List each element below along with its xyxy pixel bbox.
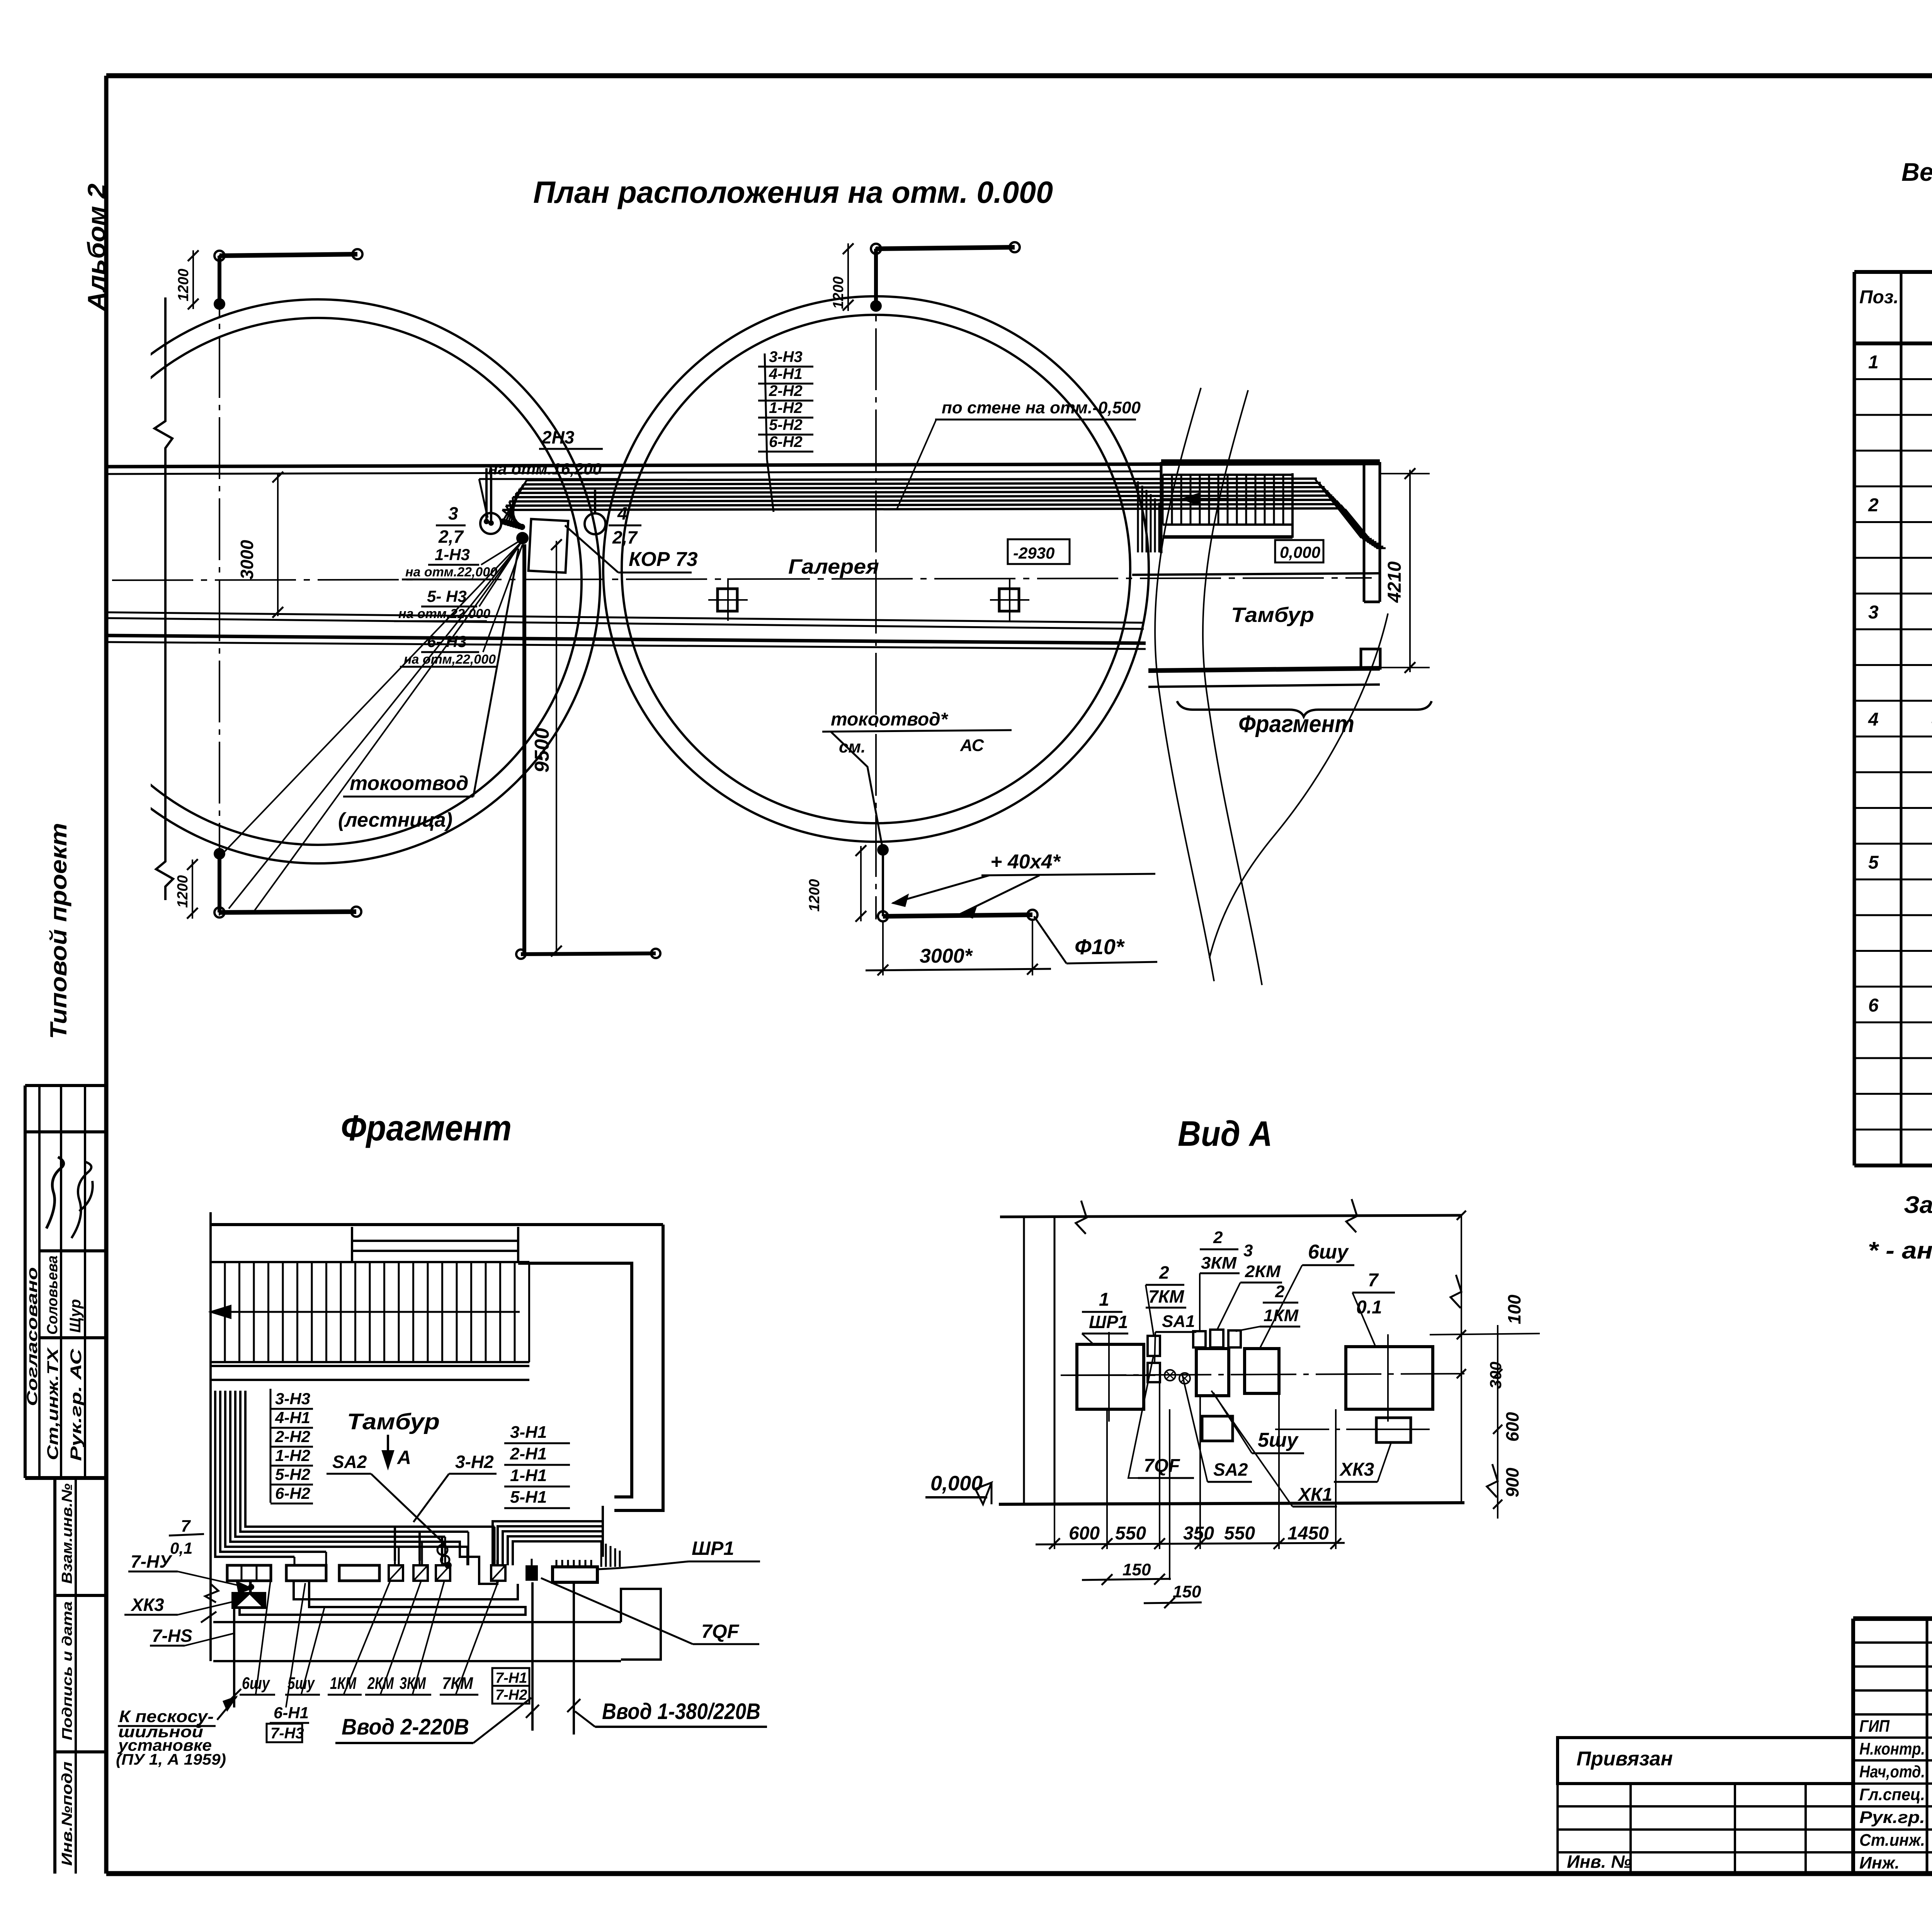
ShR1 cabinet vid A [1077,1344,1144,1409]
tambur bottom wall [1148,668,1380,671]
svg-text:600: 600 [1069,1523,1100,1544]
svg-text:550: 550 [1224,1523,1255,1544]
svg-text:Ведомость электромонтажных кон: Ведомость электромонтажных конструкций, … [1901,158,1932,186]
svg-text:550: 550 [1115,1523,1146,1544]
peskosushilka arrow leader [217,1697,236,1720]
svg-text:3-Н2: 3-Н2 [455,1452,494,1472]
svg-text:Согласовано: Согласовано [24,1267,41,1406]
svg-text:6- Н3: 6- Н3 [427,632,467,651]
svg-text:1: 1 [1099,1289,1109,1310]
boxed label 7-N1 7-N2 [492,1668,529,1704]
svg-text:Поз.: Поз. [1859,287,1899,307]
svg-text:5: 5 [1868,852,1879,873]
svg-text:токоотвод*: токоотвод* [831,709,949,730]
svg-text:5-Н2: 5-Н2 [769,416,803,433]
left top 1200 dim [192,250,194,309]
SA2 small circles [437,1545,447,1555]
svg-text:2: 2 [1868,495,1879,515]
svg-text:Привязан: Привязан [1577,1748,1673,1770]
peskosushilka riser line [233,1609,235,1707]
svg-text:Ввод 2-220В: Ввод 2-220В [342,1714,469,1740]
left bottom 1200 dim [192,860,193,919]
stack left boundary line and leader to bundle [765,353,767,460]
svg-text:SA2: SA2 [332,1452,367,1472]
svg-text:0,1: 0,1 [170,1539,192,1557]
XK3 black element [231,1592,266,1609]
svg-text:0,000: 0,000 [1280,543,1320,561]
fragment right inner wall [518,1263,632,1497]
vid A centerlines [1061,1374,1464,1375]
right top 1200 dim [847,243,849,311]
svg-text:3: 3 [1868,602,1879,623]
svg-text:7-НУ: 7-НУ [131,1551,173,1571]
svg-text:АС: АС [960,736,985,755]
svg-text:2КМ: 2КМ [1245,1262,1281,1281]
svg-text:Инв. №: Инв. № [1567,1852,1631,1872]
svg-text:1-Н1: 1-Н1 [510,1466,547,1485]
ShR1 connector box [553,1567,597,1582]
black filled box (7QF) [526,1565,538,1581]
svg-text:5шу: 5шу [287,1674,315,1693]
svg-text:2-Н1: 2-Н1 [510,1444,547,1463]
svg-text:Ст,инж.ТХ: Ст,инж.ТХ [44,1347,61,1460]
svg-text:ХК1: ХК1 [1297,1485,1332,1505]
svg-text:6-Н2: 6-Н2 [769,433,803,450]
right silo top grounding conductor [876,247,1015,249]
svg-text:(ПУ 1, А 1959): (ПУ 1, А 1959) [116,1751,226,1768]
right silo centerline [875,247,877,919]
small circle-x symbols vid A [1165,1370,1175,1381]
cable comb drop into fragment area [1137,481,1139,552]
svg-text:4-Н1: 4-Н1 [275,1408,310,1427]
svg-text:Рук.гр. АС: Рук.гр. АС [68,1348,85,1461]
svg-text:1: 1 [1868,352,1879,372]
vedomost table grid [1853,272,1856,1165]
wiring tangle in fragment [270,1526,495,1528]
svg-text:Гл.спец.: Гл.спец. [1859,1785,1925,1804]
svg-text:150: 150 [1173,1582,1201,1601]
column marker 2 [999,589,1019,611]
svg-text:7QF: 7QF [701,1621,740,1642]
svg-text:Рук.гр.: Рук.гр. [1859,1808,1925,1827]
leaders from labels to junction [481,541,520,565]
svg-text:А: А [396,1447,411,1468]
sub table below privyazan [1556,1784,1559,1874]
svg-text:3-Н3: 3-Н3 [275,1390,310,1408]
svg-text:1-Н2: 1-Н2 [275,1446,310,1464]
svg-text:1200: 1200 [175,875,191,908]
right silo bottom grounding conductor [877,844,889,856]
svg-text:100: 100 [1504,1295,1524,1324]
svg-text:5-Н1: 5-Н1 [510,1488,547,1507]
svg-text:Инв.№подл: Инв.№подл [59,1762,75,1866]
svg-text:4-Н1: 4-Н1 [769,365,803,382]
svg-text:Подпись и дата: Подпись и дата [59,1601,75,1740]
svg-text:5- Н3: 5- Н3 [427,587,467,605]
svg-text:на отм.22,000: на отм.22,000 [398,606,490,621]
dim 3000* under right grounding [882,920,884,975]
svg-text:Ввод 1-380/220В: Ввод 1-380/220В [602,1699,760,1724]
svg-text:1-Н2: 1-Н2 [769,399,803,416]
tambur bottom-right notch [1361,649,1380,668]
7QF and SA1 small boxes vid A [1148,1336,1160,1356]
stairs arrow [1182,498,1229,500]
svg-text:7QF: 7QF [1144,1456,1180,1476]
svg-text:2: 2 [1213,1228,1223,1247]
gallery centerline [112,578,1372,580]
vid A right dim column [1461,1215,1462,1504]
svg-text:План расположения на отм. 0.00: План расположения на отм. 0.000 [533,175,1053,209]
sidebar approval block (Soglasovano) [25,1084,104,1087]
svg-text:7: 7 [1368,1270,1379,1291]
svg-text:Ст.инж.: Ст.инж. [1859,1831,1925,1850]
fragment equipment row boxes [227,1565,271,1581]
cable bundle left end fan dots [503,480,527,521]
node circle 4 [585,513,605,534]
svg-text:2КМ: 2КМ [367,1674,394,1693]
right side nested cable loops [481,1507,603,1514]
cable drop stubs from wall near node 2N3 [485,468,488,519]
title block outer [1853,1616,1932,1621]
svg-text:по стене на отм.-0,500: по стене на отм.-0,500 [942,398,1141,417]
signature scribbles [46,1157,64,1228]
tambur stairs plan [1160,462,1163,553]
svg-text:600: 600 [1502,1412,1522,1442]
svg-text:0.1: 0.1 [1356,1297,1382,1318]
svg-text:Заземлитель проложить на глуб: Заземлитель проложить на глубине 0,8м от… [1904,1192,1932,1218]
vid A top wall line with breaks [1000,1215,1461,1217]
svg-text:2,7: 2,7 [612,527,638,547]
fragment brace [1177,701,1432,717]
svg-text:3КМ: 3КМ [400,1674,426,1693]
svg-text:2,7: 2,7 [438,527,464,547]
svg-text:на отм,22,000: на отм,22,000 [404,652,496,667]
XK3 junction stub [249,1581,252,1592]
cable bundle right staircase drop at tambur [1315,479,1369,537]
svg-text:350: 350 [1183,1523,1214,1544]
5ShU box vid A [1196,1349,1229,1396]
svg-text:ГИП: ГИП [1859,1717,1890,1736]
junction black dot [516,532,529,544]
switch squares with slash [389,1565,403,1581]
9500 dimension [556,541,557,954]
vid A bottom ground line [999,1503,1464,1504]
svg-text:Соловьева: Соловьева [44,1255,61,1335]
svg-text:Взам.инв.№: Взам.инв.№ [59,1483,75,1584]
svg-text:1450: 1450 [1287,1523,1329,1544]
svg-text:1200: 1200 [830,276,847,309]
svg-text:Нач,отд.: Нач,отд. [1859,1762,1925,1781]
svg-text:3-Н1: 3-Н1 [510,1423,547,1442]
svg-text:7: 7 [181,1517,191,1536]
XK3 small box vid A [1376,1418,1411,1442]
svg-text:1-Н3: 1-Н3 [435,545,470,564]
fragment left cable bundle verticals [215,1391,270,1557]
svg-text:SA1: SA1 [1162,1312,1195,1331]
svg-text:(лестница): (лестница) [338,809,452,831]
privyazan box [1558,1738,1853,1784]
vvod riser lines [531,1582,534,1731]
svg-text:3КМ: 3КМ [1201,1254,1237,1272]
svg-text:1КМ: 1КМ [330,1674,357,1693]
tambur right wall [1363,462,1366,602]
svg-text:300: 300 [1486,1362,1505,1389]
svg-text:4210: 4210 [1384,561,1405,603]
break cut curves near tambur [1155,388,1214,981]
left silo bottom grounding conductor [214,848,225,860]
svg-text:9500: 9500 [531,728,553,773]
svg-text:4: 4 [617,503,628,523]
svg-text:1КМ: 1КМ [1264,1306,1299,1325]
svg-text:2-Н2: 2-Н2 [769,382,803,399]
dimension 4210 [1380,473,1430,474]
left silo break line [155,297,173,900]
svg-text:Н.контр.: Н.контр. [1859,1740,1925,1758]
svg-text:7КМ: 7КМ [1148,1286,1185,1306]
small squares 1KM 2KM 3KM vid A [1193,1331,1206,1347]
svg-text:1200: 1200 [806,879,823,912]
gallery cable bundle 8 runs [527,479,1317,480]
svg-text:Инж.: Инж. [1859,1853,1900,1872]
elevation -2930 box [1008,539,1070,564]
tambur top wall thick [1161,459,1380,465]
svg-text:1200: 1200 [175,268,192,301]
cables from top right entering ShR1 [600,1541,602,1567]
svg-text:ШР1: ШР1 [692,1537,734,1559]
svg-text:на отм.22,000: на отм.22,000 [405,565,497,579]
6ShU box vid A [1245,1349,1279,1393]
svg-text:-2930: -2930 [1013,544,1054,562]
svg-text:Типовой проект: Типовой проект [46,823,71,1039]
svg-text:3000: 3000 [237,540,257,579]
svg-text:ШР1: ШР1 [1089,1312,1128,1332]
gallery bottom walls [106,612,1144,623]
svg-text:0,000: 0,000 [930,1472,983,1495]
svg-text:Ф10*: Ф10* [1075,934,1125,959]
svg-text:6шу: 6шу [1308,1241,1349,1263]
leader fan from junction to left grounding [222,541,522,855]
node circle 3 [480,513,501,534]
svg-text:3: 3 [448,503,458,523]
svg-text:3: 3 [1243,1241,1253,1260]
svg-text:5-Н2: 5-Н2 [275,1465,310,1483]
fragment stairs hatch [211,1261,529,1263]
svg-text:Тамбур: Тамбур [1231,603,1314,627]
svg-text:ХК3: ХК3 [1339,1459,1374,1480]
leader lines from devices to labels [256,1581,270,1694]
fragment right step box [621,1589,661,1660]
9500 riser object line [522,544,526,954]
svg-text:токоотвод: токоотвод [350,772,468,795]
svg-text:* - аналогично для всех заземл: * - аналогично для всех заземлителей. [1868,1237,1932,1264]
svg-text:4: 4 [1868,709,1879,730]
svg-text:Альбом 2: Альбом 2 [83,183,111,312]
svg-text:6: 6 [1868,995,1879,1016]
vid A left extension lines [1023,1217,1025,1504]
right silo circle [603,296,1149,842]
KOR73 box [529,519,568,573]
vid A dims bottom [1054,1504,1055,1549]
svg-text:2-Н2: 2-Н2 [275,1427,310,1446]
dim 3000 gallery width [277,473,279,616]
svg-text:2: 2 [1159,1262,1169,1283]
svg-text:ХК3: ХК3 [130,1595,164,1615]
svg-text:SA2: SA2 [1213,1459,1248,1480]
fragment right outer wall [614,1225,663,1510]
svg-text:2Н3: 2Н3 [541,427,575,447]
stairs landing below [1163,523,1293,526]
column marker 1 [718,589,737,611]
svg-text:КОР 73: КОР 73 [629,548,698,571]
svg-text:на отм.16,200: на отм.16,200 [488,460,602,478]
svg-text:7-НS: 7-НS [152,1626,192,1646]
svg-text:2: 2 [1275,1282,1285,1301]
svg-text:Щур: Щур [67,1299,84,1333]
svg-text:7-Н2: 7-Н2 [495,1687,527,1703]
SA2 box vid A [1202,1416,1233,1441]
svg-text:Вид А: Вид А [1178,1114,1272,1154]
svg-text:+ 40х4*: + 40х4* [990,851,1061,873]
svg-text:Тамбур: Тамбур [347,1409,440,1434]
svg-text:7-Н1: 7-Н1 [495,1670,527,1686]
elevation 0.000 box [1275,540,1323,562]
fragment top door opening [351,1227,353,1262]
fragment left wall [209,1212,212,1661]
svg-text:150: 150 [1122,1560,1151,1579]
svg-text:3000*: 3000* [920,945,973,967]
svg-text:Фрагмент: Фрагмент [1238,711,1354,737]
svg-text:900: 900 [1502,1468,1522,1497]
svg-text:6-Н1: 6-Н1 [274,1704,309,1722]
gallery top wall [106,464,1379,467]
fragment left wall break zigzag [205,1584,218,1602]
left silo top grounding conductor [219,254,357,256]
section arrow A [387,1435,389,1464]
right bottom 1200 dim [860,846,862,921]
panel 7/0.1 vid A [1346,1347,1433,1409]
sidebar lower strip (Inv.No etc.) [53,1478,56,1874]
left silo centerline [219,255,220,916]
tambur floor line [1132,573,1379,575]
svg-text:Галерея: Галерея [788,555,879,578]
title block signature grid [1852,1619,1855,1874]
fragment equipment wall lines [213,1621,621,1623]
svg-text:3-Н3: 3-Н3 [769,348,803,365]
fragment top wall [211,1223,663,1226]
svg-text:7-Н3: 7-Н3 [270,1725,304,1742]
sheet frame border [106,73,1932,78]
svg-text:6-Н2: 6-Н2 [275,1484,310,1502]
svg-text:Фрагмент: Фрагмент [341,1108,512,1148]
